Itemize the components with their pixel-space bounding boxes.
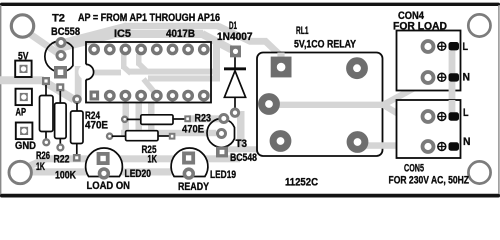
svg-text:4017B: 4017B (166, 28, 195, 40)
wire trace top bus 2 (112, 30, 203, 38)
wire trace diagonal T2 to top bus (51, 23, 126, 53)
CON5 terminal L ring (423, 111, 434, 122)
CON5 terminal L screw (438, 113, 446, 121)
svg-text:GND: GND (15, 140, 36, 152)
relay RL1 body (257, 53, 383, 157)
node pad below T2 left (42, 77, 50, 85)
relay RL1 pad bottom-left (273, 134, 288, 149)
svg-text:470E: 470E (182, 124, 204, 136)
T3 pad top ring (220, 115, 228, 123)
wire trace T2 pad down to R24 ring (75, 66, 82, 97)
resistor R23 body (141, 115, 173, 125)
node ring R26 bottom (43, 139, 49, 145)
wire trace IC elbow 2 (139, 64, 148, 73)
diode D1 cathode bar (224, 67, 246, 70)
CON4 terminal N screw (438, 73, 446, 81)
wire lead R22 bottom (59, 139, 61, 145)
CON4 terminal L screw (438, 42, 446, 50)
board edge bottom (0, 194, 500, 198)
wire lead R24 bottom (76, 144, 78, 156)
wire lead pad to R26 (45, 85, 47, 97)
svg-text:L: L (463, 41, 469, 53)
wire lead R25 right (158, 135, 170, 137)
svg-text:N: N (463, 72, 471, 84)
wire trace relay square pad feed (277, 53, 284, 59)
resistor R25 left ring (107, 134, 112, 139)
wire trace band1 left diagonal from mounting hole BL (29, 158, 49, 167)
wire lead D1 top (234, 57, 236, 68)
resistor R25 body (126, 131, 158, 141)
wire trace relay to CON5 N (357, 142, 427, 149)
wire lead R23 left (127, 118, 142, 120)
connector pad GND (16, 123, 33, 140)
svg-text:LED19: LED19 (210, 169, 236, 181)
CON4 terminal N clamp (449, 73, 460, 81)
wire trace below IC vertical a (123, 103, 130, 135)
LED20 anode square pad (97, 152, 110, 165)
LED19 outline (171, 148, 208, 176)
transistor T2 outline (45, 41, 73, 72)
svg-text:5V: 5V (18, 50, 29, 62)
T2 pad middle ring (57, 52, 65, 60)
svg-text:L: L (463, 107, 469, 119)
wire trace branch to CON4 N (384, 80, 427, 105)
wire trace T3 to relay bottom-left pad (225, 143, 281, 150)
svg-text:LED20: LED20 (125, 168, 152, 180)
CON5 terminal N clamp (449, 142, 460, 150)
svg-text:BC558: BC558 (51, 26, 80, 38)
LED19 anode square pad (182, 152, 195, 165)
svg-text:T3: T3 (236, 138, 248, 150)
LED20 cathode ring (100, 169, 109, 178)
wire trace below IC vertical b (136, 103, 143, 135)
node ring D1 bottom (231, 109, 238, 116)
connector pad 5V (15, 61, 31, 77)
wire trace band1 horizontal (44, 155, 240, 162)
wire trace band2 horizontal (32, 168, 172, 175)
LED19 cathode ring (184, 169, 193, 178)
node pad R25 right square (169, 133, 176, 140)
LED20 outline (86, 148, 123, 176)
svg-text:T2: T2 (52, 13, 65, 25)
T2 pad bottom square (54, 66, 67, 79)
op IC5 body (86, 42, 211, 103)
wire trace CON5 terminals vertical (449, 100, 456, 116)
CON5 terminal N ring (423, 141, 434, 152)
T3 pad middle ring (218, 130, 226, 138)
svg-text:1N4007: 1N4007 (217, 31, 253, 43)
wire trace IC elbow 1 (124, 67, 131, 74)
board edge right (498, 5, 499, 194)
IC5 notch (78, 64, 93, 79)
svg-text:READY: READY (178, 181, 210, 193)
node pad R23 right square (184, 115, 191, 122)
svg-text:LOAD ON: LOAD ON (87, 180, 131, 192)
relay RL1 coil square pad (271, 57, 292, 78)
wire trace top bus 2 tail to D1 (202, 34, 232, 50)
node pad below T2 right (56, 83, 64, 91)
wire trace horizontal under R25 (121, 130, 216, 136)
wire trace through IC notch (78, 70, 121, 76)
svg-text:AP: AP (16, 107, 27, 119)
wire lead D1 bottom (234, 97, 236, 108)
mounting hole bottom-right (468, 161, 490, 183)
IC5 pin 1 square pad (90, 91, 100, 101)
wire lead R24 top (76, 103, 78, 112)
IC5 pin pads bottom row (106, 91, 208, 99)
relay RL1 pad left-middle (262, 97, 277, 112)
board edge left (0, 5, 1, 194)
wire trace D1 ring down to relay trace (237, 111, 245, 149)
board edge top (0, 3, 500, 6)
resistor R22 body (55, 103, 67, 139)
connector pad AP (16, 89, 32, 105)
svg-text:AP = FROM AP1 THROUGH AP16: AP = FROM AP1 THROUGH AP16 (78, 12, 220, 24)
svg-text:470E: 470E (85, 120, 108, 132)
diode D1 top square pad (230, 46, 241, 58)
resistor R24 body (71, 111, 83, 144)
wire lead pad to R22 (59, 91, 61, 104)
CON5 terminal L clamp (449, 112, 460, 120)
svg-text:5V,1CO RELAY: 5V,1CO RELAY (294, 39, 357, 51)
svg-text:100K: 100K (55, 170, 76, 182)
svg-text:1K: 1K (36, 161, 45, 173)
transistor T3 outline (207, 119, 234, 148)
wire trace R23 pad to T3 (188, 115, 221, 122)
svg-text:IC5: IC5 (114, 28, 131, 40)
wire trace CON terminals vertical (449, 47, 456, 113)
IC5 pin pads top row (90, 45, 208, 53)
wire trace top bus 1 tail to relay (218, 26, 282, 57)
wire trace IC diagonal to pin (144, 79, 156, 94)
CON4 terminal N ring (423, 72, 434, 83)
relay RL1 pad top-right (350, 61, 365, 76)
wire trace IC pin vertical V1 (121, 54, 127, 69)
relay RL1 pad bottom-right (350, 135, 365, 150)
node ring R22 bottom (58, 145, 64, 151)
wire lead R26 bottom (45, 132, 47, 140)
connector CON5 box (397, 100, 461, 158)
svg-text:R22: R22 (54, 154, 70, 166)
connector CON4 box (397, 31, 461, 91)
svg-text:CON5: CON5 (404, 163, 424, 175)
wire trace IC pin vertical V2 (136, 54, 142, 66)
wire trace below IC vertical c (148, 103, 155, 131)
wire lead R25 left (112, 135, 126, 137)
diode D1 triangle (224, 71, 245, 98)
svg-text:FOR 230V AC, 50HZ: FOR 230V AC, 50HZ (389, 175, 470, 187)
wire trace IC horizontal 1 (128, 69, 219, 75)
mounting hole bottom-left (9, 161, 31, 183)
mounting hole top-right (468, 14, 490, 36)
CON5 terminal N screw (438, 143, 446, 151)
svg-text:N: N (463, 136, 471, 148)
T2 pad top ring (57, 39, 65, 47)
wire trace vertical right of IC5 (213, 43, 220, 82)
wire trace relay to CON5 L (269, 105, 427, 119)
node pad R24 bottom square (73, 154, 81, 162)
svg-text:BC548: BC548 (230, 152, 257, 164)
svg-text:1K: 1K (148, 154, 158, 166)
resistor R23 left ring (122, 117, 127, 122)
T3 pad bottom square (216, 147, 228, 158)
svg-text:FOR LOAD: FOR LOAD (393, 21, 447, 33)
mounting hole top-left (11, 15, 33, 37)
wire lead R23 right (173, 118, 185, 120)
CON4 terminal L clamp (449, 42, 460, 50)
svg-text:11252C: 11252C (285, 177, 318, 189)
wire trace from mounting hole TL to T2 (30, 34, 59, 54)
wire trace 5V-AP horizontal to R24 top (0, 80, 74, 99)
wire trace top bus 1 (124, 23, 219, 29)
svg-text:RL1: RL1 (296, 25, 309, 37)
wire trace IC horizontal 2 (148, 75, 219, 81)
CON4 terminal L ring (423, 41, 434, 52)
resistor R26 body (40, 96, 54, 132)
node ring R24 top (74, 96, 81, 103)
